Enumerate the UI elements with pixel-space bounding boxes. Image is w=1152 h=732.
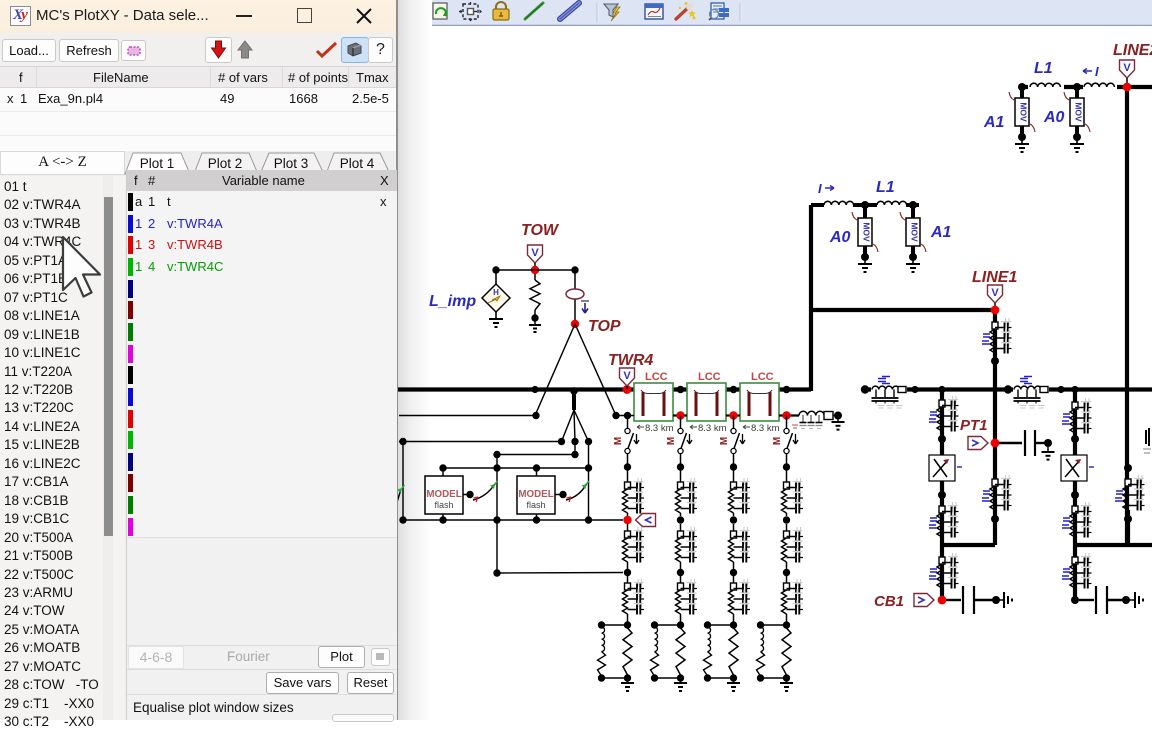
node x1075 bottom (1071, 596, 1079, 604)
chain footing wire top T2 (655, 624, 681, 626)
bottom controls (127, 645, 396, 646)
wire mid vertical x575 (574, 442, 576, 455)
partial component right edge (1145, 430, 1147, 444)
switch flash 0 (partial at edge) (396, 489, 401, 505)
node A1 top bottom (1018, 133, 1026, 141)
wire y441 (399, 441, 562, 443)
wire vertical x589 (588, 442, 590, 521)
node CB1 (red) (938, 596, 947, 605)
node LCC2-3 bottom (red) (729, 411, 737, 419)
bus vertical x942 (940, 391, 944, 600)
chain node 4 T3 (730, 621, 737, 628)
saturable inductor x1075 upper (1072, 402, 1078, 409)
variable list (0, 176, 125, 720)
ground under A0 top (1076, 137, 1078, 144)
wire TOP to right tower leg (575, 324, 616, 416)
node A0 top bottom (1073, 133, 1081, 141)
chain insulator 3 T4 (786, 573, 788, 584)
chain footing node right bottom T1 (624, 674, 631, 681)
wire y573 (497, 572, 623, 575)
chain footing node right bottom T4 (783, 674, 790, 681)
chain footing resistor T3 (729, 628, 738, 675)
node PT1 (red) (991, 439, 1000, 448)
saturable inductor x942 upper (939, 400, 945, 407)
A <-> Z + tabs row (0, 151, 396, 175)
probe V LINE2 (1120, 60, 1135, 78)
chain node 2 T4 (783, 516, 790, 523)
LCC block 1 (634, 383, 673, 421)
node y468 d (585, 464, 592, 471)
chain insulator 3 T2 (680, 573, 682, 584)
wire L1 right stub (906, 203, 919, 207)
chain wire T3 (733, 453, 735, 464)
chain switch M T1 (627, 416, 629, 430)
wire x1128 to bus545 (1126, 510, 1130, 545)
wire vertical x497 (496, 455, 498, 574)
chain footing node left top T2 (651, 621, 658, 628)
ground x1075 branch (1126, 599, 1135, 601)
chain node 3 T3 (730, 569, 737, 576)
switch box x942 (941, 431, 943, 455)
chain footing node right bottom T3 (730, 674, 737, 681)
node TWR4 (red) (623, 385, 632, 394)
node y441 a (399, 438, 406, 445)
chain insulator 2 T2 (680, 524, 682, 531)
wire y415 mid (616, 415, 634, 417)
wire fan right (574, 410, 589, 442)
node CB1 cap out (992, 596, 1000, 604)
chain footing nonlinear resistor T3 (708, 627, 711, 652)
probe CB1 (914, 594, 934, 607)
chain ground T4 (786, 678, 788, 683)
chain wire T1 (627, 453, 629, 464)
saturable inductor x1075 mid (1074, 481, 1076, 506)
toolbar group separators (413, 3, 741, 22)
node y520 a (399, 516, 406, 523)
node y468 b (493, 464, 500, 471)
ground under A1 (912, 257, 914, 264)
MODEL flash box 2 (517, 476, 555, 514)
chain ground T1 (627, 678, 629, 683)
RLC branch coil (799, 411, 824, 415)
node RLC out (834, 412, 842, 420)
ground under L_imp (495, 312, 497, 319)
arrester A0 top (MOV) (1075, 89, 1079, 98)
wire x1075 cap (1079, 599, 1094, 601)
node LINE2 (red) (1123, 83, 1132, 92)
chain node 3 T4 (783, 569, 790, 576)
node x1075 y495 (1071, 491, 1079, 499)
bus right segment (863, 387, 1152, 391)
wire mesh stub thick (572, 391, 576, 410)
saturable inductor x1128 (1125, 479, 1131, 486)
chain footing nonlinear resistor T1 (602, 627, 605, 652)
chain node 4 T4 (783, 621, 790, 628)
inductor L1 (mid row) (877, 201, 907, 205)
chain footing node left top T3 (704, 621, 711, 628)
wire LCC2-3 bottom (726, 414, 740, 416)
node y441 d (585, 438, 592, 445)
node MODEL2 bottom (533, 516, 540, 523)
chain insulator 1 T2 (680, 467, 682, 482)
chain footing node left top T4 (757, 621, 764, 628)
title bar (0, 0, 396, 33)
resistor at TOW (534, 274, 536, 280)
chain switch M T4 (786, 416, 788, 430)
node mesh stub (570, 387, 578, 395)
chain wire T4 (786, 453, 788, 464)
chain insulator 2 T3 (733, 524, 735, 531)
toolbar (0, 33, 396, 66)
chain footing node left bottom T1 (598, 674, 605, 681)
chain insulator 3 T3 (733, 573, 735, 584)
chain ground T3 (733, 678, 735, 683)
chain footing wire top T1 (602, 624, 628, 626)
node bus sat1 right (911, 386, 918, 393)
RLC branch shunt caps (802, 415, 804, 422)
node LCC2-3 top (730, 386, 738, 394)
PlotXY dialog (0, 0, 398, 720)
capacitor CB1 (962, 586, 964, 614)
wire vertical x403 (402, 442, 404, 521)
node y520 c (493, 516, 500, 523)
chain insulator 2 T1 (627, 524, 629, 531)
node y520 e (585, 516, 592, 523)
bus vertical x1075 (1073, 391, 1077, 600)
wire CB1 cap (946, 599, 961, 601)
wire fan mid (574, 410, 575, 442)
chain footing resistor T4 (782, 628, 791, 675)
node on bus x535 (531, 386, 538, 393)
wire TOW horizontal (496, 269, 575, 271)
node y454 right (571, 451, 578, 458)
chain insulator 1 T1 (627, 467, 629, 482)
node A1 top (909, 201, 917, 209)
node left of TOW (492, 266, 499, 273)
chain node 3 T2 (677, 569, 684, 576)
node x1075 cap out (1122, 596, 1130, 604)
chain insulator 1 T4 (786, 467, 788, 482)
node bus sat1 left (861, 385, 869, 393)
node LCC1-2 bottom (red) (676, 411, 684, 419)
capacitor at PT1 (1024, 430, 1026, 456)
node y468 c (533, 464, 540, 471)
bus T220 horizontal y310 (811, 308, 995, 312)
saturable inductor x942 low (941, 537, 943, 557)
ground under A1 top (1021, 137, 1023, 144)
node x1075 y439 (1071, 435, 1079, 443)
saturable inductor x995 lower (992, 479, 998, 486)
MODEL flash box 1 (425, 476, 463, 514)
node A0 top (861, 201, 869, 209)
chain footing wire bottom T4 (761, 677, 787, 679)
probe PT1 (968, 437, 988, 450)
node under resistor (531, 314, 538, 321)
chain footing wire bottom T3 (708, 677, 734, 679)
chain footing wire top T4 (761, 624, 787, 626)
chain footing wire bottom T1 (602, 677, 628, 679)
file table (0, 66, 396, 152)
node y441 c (571, 438, 578, 445)
node A1 bottom (909, 253, 917, 261)
node x942 y495 (938, 491, 946, 499)
node TOW (red) (531, 266, 539, 274)
inductor L1 top row (1083, 79, 1117, 93)
node x1075 bus (1071, 386, 1078, 393)
chain node 1 T4 (783, 463, 790, 470)
arrester A1 (MOV) (911, 207, 915, 218)
wire y415 left (399, 415, 536, 417)
node x1128 y468 (1124, 464, 1132, 472)
bus y545 left (942, 543, 995, 547)
node LCC3 right top (783, 386, 791, 394)
node y441 b (558, 438, 565, 445)
node right of TOW (571, 266, 578, 273)
chain switch M T2 (680, 416, 682, 430)
arrester A1 top (MOV) (1020, 89, 1024, 98)
wire fan left (562, 410, 575, 442)
variable grid (126, 170, 397, 720)
current probe at TOP (574, 270, 576, 324)
chain footing resistor T1 (623, 628, 632, 675)
capacitor x1075 (1095, 586, 1097, 614)
chain node 2 T2 (677, 516, 684, 523)
inductor top row coil 1 (1028, 79, 1064, 93)
chain ground T2 (680, 678, 682, 683)
ground PT1 branch (1047, 443, 1049, 452)
chain insulator 3 T1 (627, 573, 629, 584)
node LCC3 out (red) (782, 411, 790, 419)
toolbar icons (398, 1, 729, 23)
chain node 1 T2 (677, 463, 684, 470)
node x995 y519 (991, 515, 999, 523)
saturable inductor x942 mid (941, 481, 943, 506)
node bus sat2 left (1004, 385, 1012, 393)
chain footing node left bottom T4 (757, 674, 764, 681)
wire y520 (403, 519, 623, 521)
node y454 left (493, 451, 500, 458)
chain footing node left bottom T2 (651, 674, 658, 681)
chain footing nonlinear resistor T2 (655, 627, 658, 652)
node y415 left diag (532, 412, 539, 419)
chain footing wire top T3 (708, 624, 734, 626)
node x1128 y519 (1124, 515, 1132, 523)
LCC block 3 (740, 383, 779, 421)
wire PT1 cap (999, 442, 1022, 444)
chain node 4 T2 (677, 621, 684, 628)
label 8.3 km 2 (690, 425, 697, 429)
wire LCC1-2 bottom (673, 414, 687, 416)
ground CB1 branch (996, 599, 1004, 601)
bus vertical LINE1 x995 (993, 310, 997, 545)
node chain1 mid (red) T1 (623, 516, 631, 524)
wire LCC3 out bottom (779, 414, 799, 416)
inductor row coil 1 (824, 201, 854, 205)
node x995 y361 (991, 357, 999, 365)
probe V LINE1 (988, 285, 1003, 303)
wire y468 (443, 467, 589, 469)
chain switch M T3 (733, 416, 735, 430)
bus vertical LINE2 x1127 (1125, 88, 1129, 545)
switch box x1075 (1074, 432, 1076, 455)
node chain1 top (624, 412, 631, 419)
wire y454 (497, 454, 575, 456)
node PT1 cap out (1044, 439, 1052, 447)
ground under A0 (864, 257, 866, 264)
node y468 a (439, 464, 446, 471)
chain wire T2 (680, 453, 682, 464)
node x942 bus (938, 386, 945, 393)
node A0 bottom (861, 253, 869, 261)
source L_imp (diamond) (495, 270, 497, 285)
wire between coils (853, 203, 877, 207)
label 8.3 km 1 (637, 425, 644, 429)
node y573 corner (493, 569, 500, 576)
node x942 y439 (938, 435, 946, 443)
application toolbar background (0, 0, 1152, 25)
chain footing nonlinear resistor T4 (761, 627, 764, 652)
node MODEL1 bottom (439, 516, 446, 523)
chain footing node left top T1 (598, 621, 605, 628)
saturable inductor x1075 low (1074, 537, 1076, 557)
chain node 2 T3 (730, 516, 737, 523)
chain footing wire bottom T2 (655, 677, 681, 679)
saturable inductor LINE1 upper (992, 322, 998, 329)
chain footing node right bottom T2 (677, 674, 684, 681)
probe current chain1 T1 (636, 514, 656, 527)
wire top row (1022, 85, 1152, 89)
chain insulator 1 T3 (733, 467, 735, 482)
chain node 1 T1 (624, 463, 631, 470)
label 8.3 km 3 (743, 425, 750, 429)
node y415 right diag (612, 412, 619, 419)
ground under resistor (534, 318, 536, 325)
wire TOP to left tower leg (535, 324, 575, 416)
RLC branch resistor box (824, 412, 833, 420)
chain node 3 T1 (624, 569, 631, 576)
probe V TWR4 (620, 368, 635, 386)
chain footing node left bottom T3 (704, 674, 711, 681)
node TOP (red) (571, 320, 579, 328)
chain node 4 T1 (624, 621, 631, 628)
node LCC1-2 top (677, 386, 685, 394)
node top-left (A1) (1018, 83, 1026, 91)
LCC block 2 (687, 383, 726, 421)
bus y545 right (1075, 543, 1152, 547)
node bus sat2 right (1057, 386, 1064, 393)
node top mid (A0) (1073, 83, 1081, 91)
chain footing resistor T2 (676, 628, 685, 675)
switch flash 1 (463, 494, 470, 496)
switch flash 2 (555, 494, 563, 496)
wire L1 row stub left (811, 203, 824, 207)
arrester A0 (MOV) (863, 207, 867, 218)
node LINE1 (red) (991, 306, 1000, 315)
saturable inductor bus 1 (871, 380, 907, 398)
chain insulator 2 T4 (786, 524, 788, 531)
chain node 1 T3 (730, 463, 737, 470)
probe V TOW (528, 245, 543, 263)
bus vertical riser x810 (809, 205, 813, 391)
bus TWR4 left segment (398, 387, 811, 391)
ground after RLC (837, 416, 839, 423)
saturable inductor bus 2 (1013, 380, 1049, 398)
label <-I top (1083, 69, 1092, 74)
